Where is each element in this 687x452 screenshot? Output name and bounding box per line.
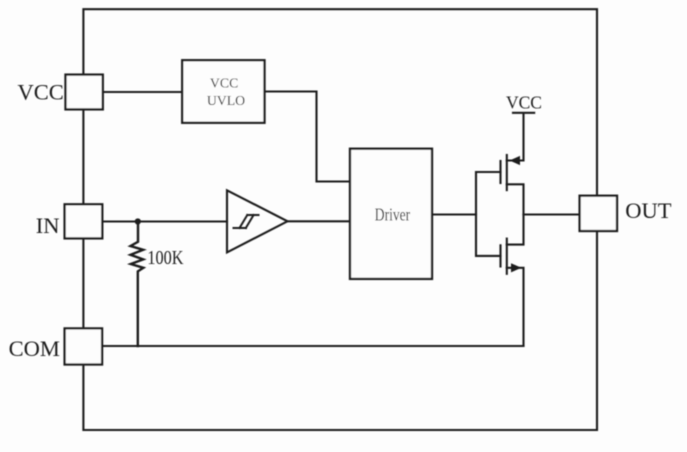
svg-text:OUT: OUT [625,198,671,223]
svg-text:VCC: VCC [506,93,542,113]
svg-text:100K: 100K [147,247,183,269]
svg-text:IN: IN [36,213,60,238]
svg-text:VCC: VCC [210,75,238,90]
svg-text:Driver: Driver [375,204,410,224]
svg-text:VCC: VCC [17,80,63,105]
svg-text:COM: COM [9,336,60,361]
svg-text:UVLO: UVLO [207,93,245,108]
